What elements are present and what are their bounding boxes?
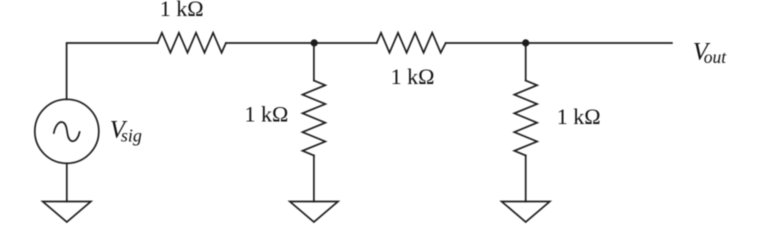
svg-text:1 kΩ: 1 kΩ xyxy=(391,64,435,89)
node A junction dot xyxy=(311,39,318,46)
resistor R3 zigzag (shunt 1) xyxy=(303,81,326,156)
wire node1 down xyxy=(313,43,315,81)
wire R3 to ground xyxy=(313,156,315,202)
node B junction dot xyxy=(522,39,529,46)
wire top-left segment xyxy=(67,43,158,99)
wire source to ground xyxy=(66,163,68,201)
resistor R1 zigzag xyxy=(158,33,226,53)
resistor R2 zigzag xyxy=(377,33,446,53)
ground (node 1) xyxy=(290,202,338,223)
source V_sig circle xyxy=(35,99,99,163)
sine symbol xyxy=(54,122,80,141)
ground (node 2) xyxy=(502,202,550,223)
wire node2 down xyxy=(525,43,527,81)
svg-text:1 kΩ: 1 kΩ xyxy=(244,101,288,126)
wire R4 to ground xyxy=(525,156,527,202)
svg-text:Vsig: Vsig xyxy=(110,117,142,146)
ground (source) xyxy=(43,202,91,223)
resistor R4 zigzag (shunt 2) xyxy=(514,81,537,156)
wire R2 to output xyxy=(446,42,672,44)
svg-text:1 kΩ: 1 kΩ xyxy=(160,0,204,21)
svg-text:1 kΩ: 1 kΩ xyxy=(557,104,601,129)
wire R1 to R2 xyxy=(226,42,377,44)
svg-text:Vout: Vout xyxy=(693,39,728,68)
